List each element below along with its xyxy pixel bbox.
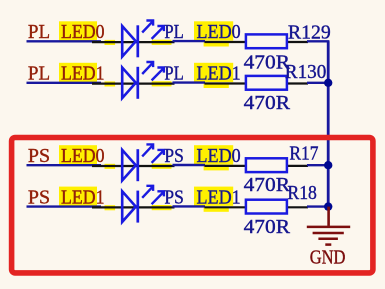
svg-text:LED1: LED1 [197,186,241,208]
svg-text:PL: PL [28,63,50,85]
svg-text:470R: 470R [244,52,291,74]
svg-text:470R: 470R [244,174,291,196]
svg-text:PL: PL [164,21,183,43]
svg-text:470R: 470R [244,216,291,238]
svg-text:PL: PL [164,63,183,85]
svg-text:LED0: LED0 [197,21,241,43]
svg-text:PS: PS [164,145,183,167]
svg-text:R18: R18 [287,182,317,204]
svg-text:R130: R130 [285,61,327,83]
svg-text:PS: PS [28,186,50,208]
svg-text:R17: R17 [289,142,318,164]
svg-text:PL: PL [28,21,50,43]
svg-text:LED0: LED0 [61,145,105,167]
svg-text:PS: PS [164,186,183,208]
svg-text:GND: GND [310,247,346,269]
svg-text:PS: PS [28,145,50,167]
svg-text:LED0: LED0 [61,21,105,43]
svg-text:LED0: LED0 [197,145,241,167]
svg-text:LED1: LED1 [61,186,105,208]
svg-text:LED1: LED1 [197,63,241,85]
svg-text:R129: R129 [288,21,331,43]
svg-text:LED1: LED1 [61,63,105,85]
svg-text:470R: 470R [244,92,291,114]
